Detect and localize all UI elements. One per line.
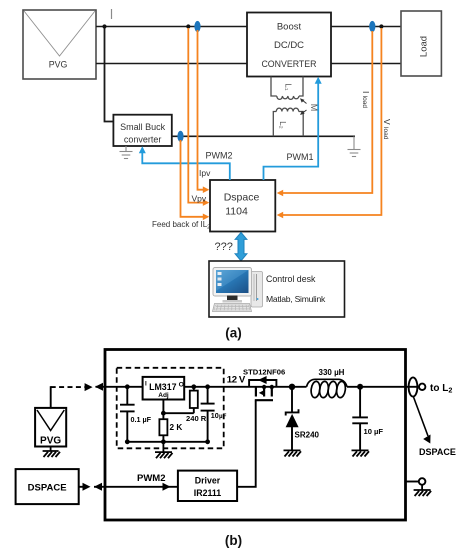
svg-text:10: 10 <box>211 411 219 420</box>
LM317 U1 <box>143 377 185 400</box>
label L1 <box>284 83 293 90</box>
label 10uF output <box>364 427 384 436</box>
wire drop to Small Buck <box>102 24 113 121</box>
svg-text:IR2111: IR2111 <box>194 488 222 498</box>
arrow PWM1 into Boost <box>315 77 322 84</box>
svg-text:µF: µF <box>219 413 227 420</box>
svg-text:to L2: to L2 <box>430 383 452 395</box>
svg-text:LM317: LM317 <box>149 382 176 392</box>
wire driver to gate <box>237 401 256 487</box>
wire Iload orange <box>277 31 373 196</box>
svg-text:DSPACE: DSPACE <box>28 483 67 494</box>
dashed wire from DSPACE <box>79 483 91 491</box>
caption (a) <box>225 326 242 341</box>
ground output cap <box>352 450 370 456</box>
connector to L2 <box>406 377 426 396</box>
dashed wire from PVG <box>51 383 93 391</box>
wire feedback IL2 orange <box>181 140 210 220</box>
label L2 <box>278 121 287 129</box>
label to L2 <box>430 383 452 395</box>
label Vpv <box>192 194 207 204</box>
label ??? <box>215 241 233 253</box>
svg-text:SR240: SR240 <box>295 431 320 440</box>
Control desk box <box>209 261 345 317</box>
label 240R <box>186 414 207 423</box>
DSPACE box B <box>16 469 79 504</box>
main 12V rail wire <box>96 386 406 388</box>
computer icon <box>213 268 263 312</box>
svg-text:STD12NF06: STD12NF06 <box>243 368 285 377</box>
label Ipv <box>199 168 211 178</box>
wire PVG bottom to Boost <box>96 63 247 65</box>
node Vpv tap <box>186 24 190 28</box>
capacitor 10uF left <box>201 387 215 442</box>
label feedback <box>152 220 210 231</box>
svg-text:Driver: Driver <box>195 476 221 486</box>
wire PVG top to Boost <box>96 26 247 28</box>
Small Buck converter box <box>113 115 171 146</box>
PVG box B <box>35 408 66 447</box>
label PWM1 <box>287 152 314 162</box>
wire PWM2 into driver <box>94 483 178 491</box>
inductor L1 <box>271 77 303 100</box>
arrow to DSPACE label <box>414 397 431 444</box>
MOSFET Q1 <box>249 376 276 400</box>
connector ground stub <box>406 478 426 489</box>
label STD12NF06 <box>243 368 285 377</box>
arrow PWM2 into Small Buck <box>139 146 146 153</box>
wire Boost to Load top <box>331 26 401 28</box>
Load box <box>401 11 441 76</box>
ground SR240 <box>284 450 302 456</box>
resistor 240R <box>190 387 198 413</box>
node input <box>125 384 130 389</box>
svg-text:10 µF: 10 µF <box>364 427 384 436</box>
Driver IR2111 box <box>178 471 237 501</box>
label 10uF left <box>211 411 227 420</box>
regulator ground rail <box>125 439 210 444</box>
capacitor 0.1uF <box>120 387 135 442</box>
wire Vload orange <box>277 28 382 218</box>
circuit enclosure box <box>105 350 406 521</box>
inductor L2 <box>273 108 303 136</box>
svg-text:0.1 µF: 0.1 µF <box>131 415 152 424</box>
svg-text:PVG: PVG <box>40 436 61 447</box>
label PWM2 b <box>137 473 166 484</box>
tick mark <box>111 9 113 19</box>
ground regulator <box>155 442 173 458</box>
sensor Ipv <box>194 21 200 32</box>
node Vload tap <box>379 24 383 28</box>
wire Boost to Load bottom <box>331 63 401 65</box>
svg-text:DSPACE: DSPACE <box>419 447 456 457</box>
label Matlab Simulink <box>266 294 326 304</box>
node 10uF top <box>205 384 210 389</box>
thick link arrow <box>235 232 247 260</box>
node 240R top <box>191 384 196 389</box>
ground under Small Buck <box>120 146 133 159</box>
wire Vpv orange <box>188 28 209 206</box>
svg-text:O: O <box>179 382 184 389</box>
svg-text:240 R: 240 R <box>186 414 207 423</box>
label Control desk <box>266 274 316 284</box>
ground below PVG <box>43 447 60 458</box>
label SR240 <box>295 431 320 440</box>
label Vload <box>382 119 392 140</box>
wire Adj stem <box>161 400 194 420</box>
label DSPACE b <box>419 447 456 457</box>
sensor Iload <box>369 21 375 32</box>
dashed regulator box <box>117 368 224 449</box>
capacitor 10uF output <box>352 387 368 450</box>
node output cap <box>357 384 363 390</box>
node SR240 tap <box>289 384 295 390</box>
diode SR240 <box>286 387 299 450</box>
Dspace 1104 box <box>210 180 275 232</box>
ground connector <box>414 490 432 496</box>
svg-text:2 K: 2 K <box>170 423 183 432</box>
label Iload <box>361 91 371 108</box>
wire Ipv orange <box>198 30 210 193</box>
label 330uH <box>319 368 345 377</box>
wire PVG riser <box>50 386 52 408</box>
wire Small Buck output <box>172 135 355 137</box>
svg-text:PWM2: PWM2 <box>137 473 166 484</box>
resistor 2K <box>159 419 167 442</box>
mutual coupling M <box>300 98 319 115</box>
caption (b) <box>225 533 242 548</box>
arrow into rail (left) <box>95 383 103 391</box>
svg-text:I: I <box>145 381 147 388</box>
inductor 330uH <box>307 379 348 398</box>
Boost converter box <box>247 13 331 77</box>
label 12V <box>227 375 246 386</box>
label 0.1uF <box>131 415 152 424</box>
wire PWM1 blue <box>264 81 319 180</box>
sensor IL2 <box>177 131 183 142</box>
label 2K <box>170 423 183 432</box>
ground under L2 return <box>348 136 361 156</box>
wire PWM2 blue <box>142 151 230 180</box>
PVG box A <box>23 10 96 79</box>
svg-text:Adj: Adj <box>158 392 169 399</box>
svg-text:(b): (b) <box>225 533 242 548</box>
svg-text:330 µH: 330 µH <box>319 368 345 377</box>
label PWM2 <box>206 151 233 161</box>
